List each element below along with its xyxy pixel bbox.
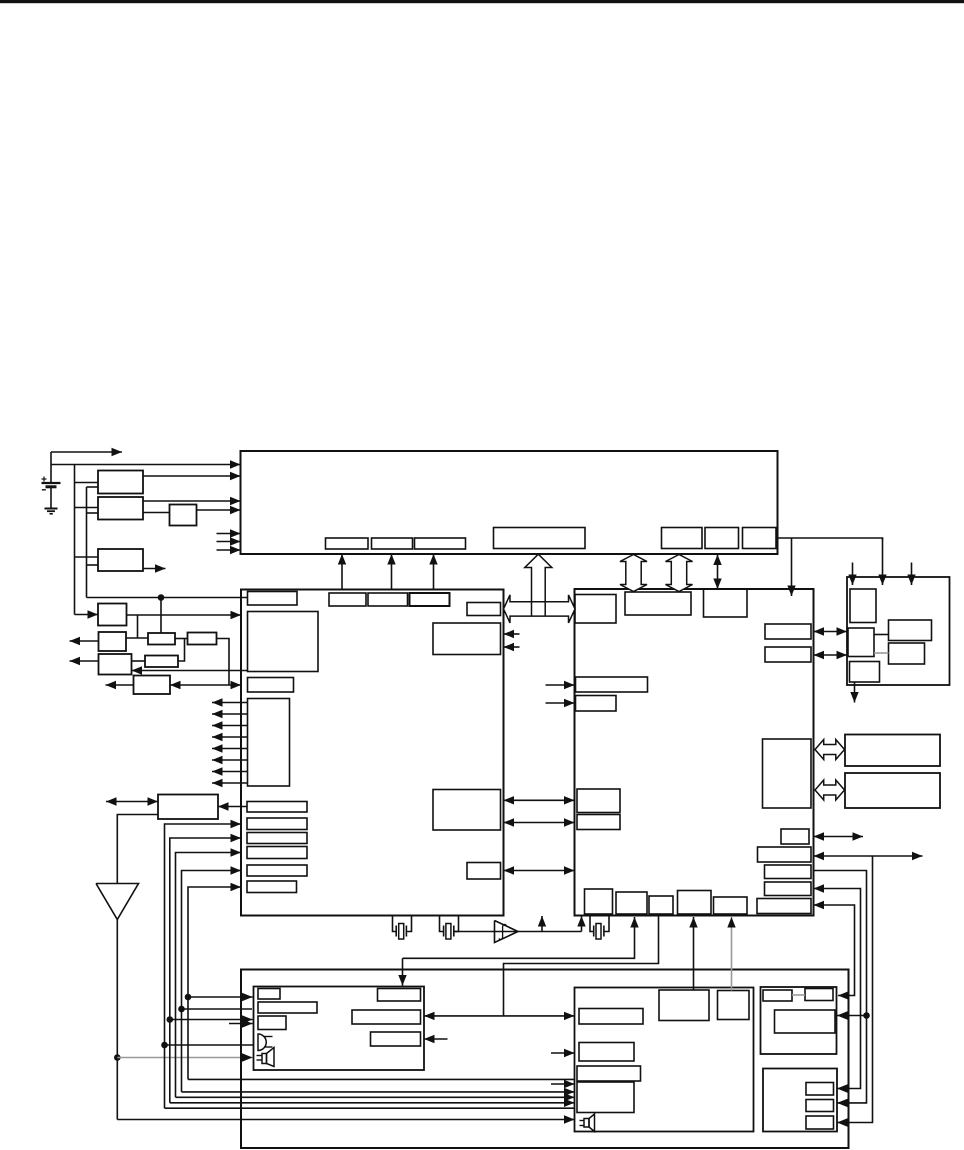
CPU sub G5 oscillator — [248, 612, 319, 672]
wire F1 to E1 — [218, 802, 247, 810]
DSP sub H13 — [758, 847, 812, 862]
UI speaker icon — [257, 1048, 275, 1067]
wire GPIO out 4 — [212, 733, 248, 741]
wire P3 feed — [837, 1011, 867, 1019]
wire VBAT branch bus — [74, 465, 76, 615]
wire CPU-DSP bus b — [504, 818, 575, 826]
baseband CPU U2 — [241, 590, 504, 916]
wire bus4 CPU-board — [182, 866, 575, 1096]
hollow bus CPU-DSP — [504, 595, 576, 623]
CPU sub F2 — [247, 818, 307, 830]
wire charge in — [75, 610, 99, 618]
wire stub N4 in — [551, 1049, 575, 1057]
crystal X2 — [440, 916, 459, 940]
wire stub in1 — [217, 529, 241, 537]
memory M1 — [845, 735, 940, 767]
CPU sub F3 — [247, 833, 307, 844]
crystal X1 — [393, 916, 412, 940]
DSP sub H16 — [757, 899, 811, 914]
wire bus1 CPU-board — [165, 820, 575, 1108]
sub-block S2 — [372, 538, 413, 549]
UI sub K1 — [258, 989, 280, 1000]
CPU sub G3 — [368, 593, 408, 606]
wire stub to LDO2 — [75, 507, 99, 509]
P sub P3 — [775, 1010, 836, 1033]
ground — [45, 509, 58, 514]
wire GPIO out 2 — [212, 710, 248, 718]
RF sub R2 — [848, 628, 874, 657]
node antenna branch — [114, 1054, 121, 1061]
wire stub G6 a — [504, 630, 520, 638]
buzzer — [258, 1034, 273, 1051]
battery B+ — [42, 477, 61, 490]
wire K1 feed — [188, 993, 253, 1001]
wire C5 out — [217, 639, 230, 686]
wire H19 to LCD bus — [504, 914, 659, 1016]
accessory board P — [761, 987, 837, 1054]
filter block — [170, 505, 197, 526]
power management IC U1 — [241, 451, 778, 554]
DSP sub H11 memory ctrl — [763, 739, 812, 808]
wire stub in2 — [217, 537, 241, 545]
wire stub H8 — [546, 699, 575, 707]
connector board Q — [763, 1069, 837, 1132]
node P3 tap — [863, 1012, 870, 1019]
UI sub K3 — [258, 1016, 286, 1030]
wire stub in3 — [217, 546, 241, 554]
wire GPIO out 1 — [212, 698, 248, 706]
CPU sub F4 — [247, 847, 307, 859]
wire opamp out — [518, 931, 582, 933]
CPU sub G4 — [410, 593, 450, 606]
UI sub K5 — [352, 1010, 421, 1024]
system board outline — [241, 970, 849, 1149]
wire LDO2 out — [143, 497, 241, 505]
DSP sub H21 — [714, 897, 748, 914]
CPU sub D2 — [248, 678, 294, 693]
regulator LDO2 — [98, 497, 143, 520]
CPU sub D3 GPIO — [248, 699, 290, 787]
sub-block S1 — [326, 538, 369, 549]
wire stub UI in — [229, 1019, 253, 1027]
wire RF down arrow — [850, 682, 858, 703]
wire GPIO out 5 — [212, 744, 248, 752]
wire H13 interface — [814, 852, 923, 860]
wire GPIO out 8 — [212, 779, 248, 787]
wire C3 to C6 — [132, 660, 146, 662]
wire buzzer feed — [165, 1044, 254, 1046]
wire charger to CPU — [127, 611, 242, 619]
wire osc to C3 — [132, 666, 248, 674]
DSP sub H3 — [704, 589, 748, 617]
wire K3 feed — [170, 1015, 253, 1023]
wire LDO2 to filter — [143, 512, 170, 514]
hollow bus H11-M1 — [815, 740, 845, 760]
RF sub R4 — [889, 620, 932, 641]
handset sub N5 — [577, 1066, 641, 1081]
RF sub R5 — [889, 643, 925, 664]
wire E1 to antenna path — [117, 815, 158, 884]
wire X2 to opamp — [453, 931, 518, 933]
antenna — [96, 884, 139, 920]
DSP sub H18 — [616, 892, 647, 914]
wire stub sense LDO3 — [87, 564, 99, 566]
wire LDO3 out arrow — [143, 564, 166, 572]
wire C7 to CPU — [170, 681, 241, 689]
handset sub N3 — [579, 1009, 643, 1025]
wire sense bus — [86, 487, 88, 598]
wire stub sense LDO1 — [87, 486, 99, 488]
UI sub K2 — [258, 1002, 317, 1013]
wire stub to LDO1 — [75, 482, 99, 484]
wire filter out — [197, 506, 241, 514]
block C3 — [99, 654, 132, 675]
RF sub R3 — [850, 662, 880, 683]
wire H16 to P2 — [814, 901, 855, 1000]
sub-block S3 — [415, 538, 466, 549]
node bus5 K1 tap — [185, 994, 192, 1001]
sub-block S6 — [705, 528, 739, 549]
crystal X3 — [590, 916, 609, 940]
wire bus2 CPU-board — [170, 834, 575, 1107]
DSP sub H9 — [577, 789, 620, 813]
wire DSP-RF b — [814, 651, 848, 659]
charger block — [98, 604, 127, 626]
wire N2 to H21 — [727, 917, 735, 991]
wire S1 feed — [338, 554, 346, 590]
node bus4 K2 tap — [178, 1006, 185, 1013]
CPU sub G10 — [467, 863, 501, 880]
wire bus3 CPU-board — [176, 848, 575, 1101]
block C7 — [134, 676, 171, 695]
DSP sub H19 — [649, 896, 673, 914]
wire S2 feed — [387, 554, 395, 590]
wire N1 to H20 — [689, 917, 697, 990]
wire GPIO out 3 — [212, 721, 248, 729]
CPU sub G9 memory IF — [433, 790, 501, 831]
wire R2 to R5 — [874, 652, 889, 654]
wire to handset speaker — [117, 1115, 574, 1123]
DSP sub H2 — [625, 592, 691, 615]
wire PMIC to RF — [778, 538, 887, 585]
sub-block S5 — [662, 528, 703, 549]
wire H14 to P3 Q2 — [814, 871, 867, 1108]
node VBAT sense — [158, 594, 165, 601]
wire bus5 CPU-board — [188, 883, 575, 1080]
handset sub N6 — [577, 1082, 634, 1113]
P sub P2 — [805, 989, 833, 1001]
DSP U3 — [575, 589, 814, 916]
op-amp clock buffer — [495, 921, 519, 943]
handset speaker icon — [580, 1114, 595, 1132]
wire clock stub up — [538, 916, 546, 932]
wire stub K6 — [424, 1035, 448, 1043]
wire LDO1 out — [143, 472, 241, 480]
DSP sub H12 — [781, 829, 809, 844]
wire VBAT to power IC — [51, 460, 241, 468]
DSP sub H15 — [765, 882, 812, 896]
page top rule — [0, 0, 964, 3]
Q sub Q1 — [806, 1083, 834, 1096]
handset sub N1 — [659, 990, 709, 1021]
wire DSP-RF a — [814, 627, 848, 635]
wire stub H7 — [546, 681, 575, 689]
hollow bus PMIC-H2 a — [620, 555, 647, 592]
sub-block S4 — [494, 528, 586, 549]
wire GPIO out 7 — [212, 767, 248, 775]
wire C2 to C4 — [126, 637, 148, 639]
memory M2 — [845, 773, 940, 808]
wire PMIC to DSP top — [787, 538, 795, 596]
CPU sub G6 — [433, 623, 501, 655]
DSP sub H20 — [678, 891, 712, 915]
wire stub to LDO3 — [75, 556, 99, 558]
wire R2 to R4 — [874, 634, 889, 636]
wire C6 up — [178, 639, 185, 662]
DSP sub H14 — [765, 865, 812, 879]
block C5 — [188, 633, 217, 645]
node bus2 K3 tap — [167, 1016, 174, 1023]
wire charger branch — [137, 615, 139, 638]
Q sub Q2 — [806, 1100, 834, 1112]
DSP sub H10 — [577, 815, 620, 830]
wire node down — [160, 598, 162, 634]
CPU sub F1 — [247, 802, 307, 813]
regulator LDO3 — [98, 549, 143, 571]
wire stub G6 b — [504, 643, 520, 651]
Q sub Q3 — [806, 1116, 834, 1129]
UI board — [254, 987, 425, 1071]
DSP sub H4 — [765, 624, 811, 639]
wire battery stem — [50, 452, 52, 509]
hollow bus arrow up to PMIC — [525, 554, 552, 615]
wire SIM interface — [106, 797, 158, 805]
wire antenna feed — [116, 920, 118, 1120]
wire K5-N3 bus — [424, 1012, 575, 1020]
wire H18 to K4 — [398, 917, 638, 986]
CPU sub G1 — [248, 592, 298, 606]
wire to UI speaker — [117, 1053, 252, 1061]
SIM block E1 — [158, 795, 218, 820]
RF module — [847, 577, 950, 685]
wire stub sense LDO2 — [87, 512, 99, 514]
DSP sub H7 — [576, 677, 648, 692]
DSP sub H5 — [765, 647, 811, 662]
wire clock to DSP — [577, 916, 585, 932]
wire charger out arrow — [51, 448, 122, 456]
handset sub N2 — [718, 991, 750, 1020]
wire C3 out arrow — [70, 657, 99, 665]
wire P1-P2 — [792, 994, 805, 996]
wire C2 out arrow — [70, 637, 99, 645]
wire stub N6 in — [551, 1080, 575, 1088]
RF sub R1 — [850, 589, 876, 623]
block C6 — [145, 656, 178, 668]
P sub P1 — [763, 990, 792, 1001]
block C4 — [148, 633, 175, 645]
sub-block S7 — [743, 528, 777, 549]
wire H12 interface — [814, 832, 864, 840]
wire C4 to C5 — [175, 638, 188, 640]
wire S3 feed — [429, 554, 437, 590]
hollow bus PMIC-H2 b — [666, 555, 693, 592]
block C2 — [99, 632, 127, 651]
CPU sub G2 — [329, 593, 366, 606]
wire VBAT sense to CPU — [87, 597, 248, 599]
handset sub N4 — [579, 1043, 634, 1062]
wire K2 feed — [182, 1008, 253, 1010]
wire PMIC-H3 double arrow — [713, 555, 721, 590]
wire H15 to Q1 — [814, 884, 861, 1092]
DSP sub H8 — [576, 696, 617, 712]
UI sub K6 — [371, 1032, 421, 1046]
DSP sub H17 — [585, 889, 613, 914]
wire RF stub b — [907, 563, 915, 586]
wire C7 out arrow — [106, 681, 134, 689]
CPU sub F6 — [247, 881, 297, 893]
wire CPU-DSP bus c — [504, 866, 575, 874]
wire H13 branch to Q3 — [837, 856, 873, 1127]
CPU sub G7 — [467, 603, 501, 616]
DSP sub H1 — [575, 595, 616, 624]
handset board — [575, 988, 754, 1132]
regulator LDO1 — [98, 471, 143, 494]
wire RF stub a — [848, 563, 856, 586]
CPU sub F5 — [247, 865, 307, 876]
wire CPU-DSP bus a — [504, 796, 575, 804]
node bus1 buzzer tap — [161, 1042, 168, 1049]
wire GPIO out 6 — [212, 756, 248, 764]
hollow bus H11-M2 — [815, 780, 845, 800]
UI sub K4 — [378, 989, 421, 1002]
